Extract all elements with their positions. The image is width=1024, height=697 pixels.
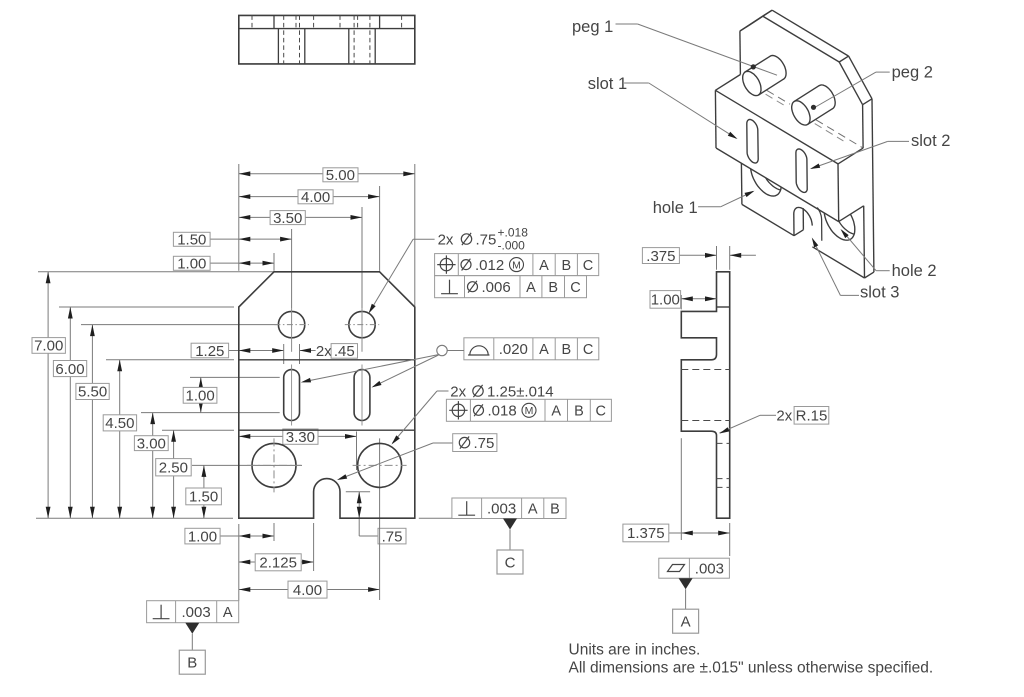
iso left chamfer back: [740, 16, 763, 31]
flatness symbol: [668, 565, 685, 572]
svg-text:hole 2: hole 2: [892, 262, 937, 280]
iso boss-strip tangent line dashed: [767, 90, 790, 104]
svg-text:+.018: +.018: [498, 226, 529, 240]
top view slot 1 hidden lines: [283, 15, 285, 64]
FCF perpendicularity .003 A B (datum C): [452, 498, 566, 519]
svg-text:B: B: [561, 258, 571, 274]
top view slot 2 hidden lines: [353, 15, 355, 64]
dia .75 notch callout: [433, 442, 453, 444]
svg-text:1.00: 1.00: [185, 388, 214, 405]
svg-text:3.50: 3.50: [273, 210, 302, 227]
iso peak connector: [763, 10, 772, 16]
dimension .75 notch depth: [346, 491, 370, 493]
svg-text:.020: .020: [499, 341, 528, 358]
svg-text:2x: 2x: [316, 343, 332, 360]
dimension 4.00 horizontal: [239, 196, 380, 198]
dimension 5.00 horizontal: [239, 173, 415, 175]
top view hole 1 hidden lines: [251, 15, 253, 28]
leader to slot 1: [304, 355, 440, 382]
svg-text:4.00: 4.00: [301, 189, 330, 206]
iso right chamfer front: [849, 56, 872, 99]
svg-text:A: A: [539, 342, 549, 358]
svg-text:M: M: [512, 259, 521, 271]
extension line 3.00 / slot bottom: [141, 412, 280, 414]
dimension 1.00 slot length: [189, 376, 191, 378]
iso left chamfer front: [749, 10, 772, 25]
iso notch arc back: [794, 207, 812, 225]
iso slot 1 inner wall: [781, 98, 792, 141]
part left edge extension line below (datum B attach): [238, 524, 240, 601]
extension line part right edge above: [414, 164, 416, 306]
iso peg 2 cylinder: [792, 101, 810, 125]
svg-text:hole 1: hole 1: [653, 199, 698, 217]
svg-text:All dimensions are ±.015" unle: All dimensions are ±.015" unless otherwi…: [569, 660, 934, 677]
top view divider line: [239, 28, 415, 30]
extension line hole1 below: [273, 523, 275, 541]
svg-text:B: B: [550, 502, 560, 518]
dimension 1.50 horizontal: [239, 238, 292, 240]
svg-text:5.50: 5.50: [78, 384, 107, 401]
svg-text:.75: .75: [476, 232, 497, 249]
top view outline: [239, 15, 415, 64]
svg-text:1.25: 1.25: [195, 343, 224, 360]
dimension 6.00 vertical: [69, 307, 71, 518]
dimension 1.375 side view: [680, 438, 682, 540]
iso notch (slot 3) left wall edges: [793, 214, 795, 236]
extension line 4.50 boss top: [106, 359, 234, 361]
extension line notch left below: [313, 523, 315, 571]
svg-text:2.125: 2.125: [259, 555, 297, 572]
svg-text:1.00: 1.00: [651, 292, 680, 309]
extension line 5.50 peg centerline left: [81, 324, 277, 326]
svg-text:.75: .75: [474, 435, 495, 452]
dimension 3.30: [239, 435, 357, 437]
top view hole 2 hidden lines: [357, 15, 359, 28]
iso bottom edge right part: [812, 247, 864, 278]
FCF perpendicularity dia .006 | A B C: [435, 276, 587, 298]
extension line 3.30: [356, 432, 358, 471]
svg-text:A: A: [539, 258, 549, 274]
note 2x dia .75 with tolerance: [413, 238, 435, 240]
extension line part left edge above: [238, 164, 240, 271]
side view chamfer edge line: [717, 306, 730, 308]
dimension 3.50 horizontal: [239, 216, 362, 218]
extension line 7.00 top: [38, 271, 274, 273]
dimension .375 side view: [716, 246, 718, 270]
svg-text:slot 1: slot 1: [588, 75, 627, 93]
top view peg 2 edges: [348, 29, 350, 64]
iso boss-top fillet tangent dashed: [766, 94, 785, 105]
svg-text:.003: .003: [487, 501, 516, 518]
extension line slot top (1.00 slot): [190, 376, 280, 378]
extension line peg2 center above: [361, 207, 363, 308]
datum A flag: [679, 578, 693, 589]
iso boss top-left connector: [715, 75, 740, 91]
iso left chamfer connector: [740, 25, 749, 31]
svg-text:A: A: [551, 404, 561, 420]
dimension 1.50 vertical: [203, 465, 205, 518]
dimension 2.50 vertical: [173, 430, 175, 518]
svg-text:A: A: [528, 502, 538, 518]
hole 1 circle: [252, 443, 296, 487]
hole 1 rim: [751, 156, 782, 197]
svg-text:slot 3: slot 3: [860, 284, 899, 302]
hole 1 centermark: [273, 438, 275, 492]
profile of surface symbol: [469, 346, 490, 355]
svg-text:slot 2: slot 2: [911, 132, 950, 150]
svg-text:4.00: 4.00: [293, 582, 322, 599]
slot 1 centerline: [291, 365, 293, 426]
extension line hole2 below: [379, 438, 381, 600]
svg-text:.45: .45: [334, 343, 355, 360]
svg-text:3.00: 3.00: [137, 435, 166, 452]
dimension 1.25 to slot1 left edge: [229, 350, 284, 352]
iso boss face left edge: [714, 90, 717, 148]
side view outline: [681, 272, 729, 518]
iso notch inner (front) arc: [818, 208, 822, 219]
top view chamfer edge left: [273, 15, 275, 28]
top view chamfer edge right: [379, 15, 381, 28]
iso bottom edge left part: [742, 204, 794, 235]
svg-text:C: C: [505, 555, 516, 572]
svg-text:2x: 2x: [776, 408, 792, 425]
dimension 4.50 vertical: [119, 360, 121, 518]
svg-text:M: M: [525, 405, 534, 417]
iso right edge front: [872, 99, 874, 272]
svg-text:4.50: 4.50: [105, 415, 134, 432]
svg-text:1.25±.014: 1.25±.014: [487, 384, 554, 401]
svg-text:B: B: [574, 404, 584, 420]
boss step line lower: [239, 429, 415, 431]
datum C flag: [503, 519, 517, 530]
bottom baseline extension line: [36, 517, 233, 519]
svg-text:C: C: [570, 280, 580, 296]
svg-text:1.00: 1.00: [188, 528, 217, 545]
svg-text:.006: .006: [482, 279, 511, 296]
iso boss bottom-right connector: [839, 206, 864, 222]
slot 2 outline: [354, 370, 370, 421]
iso boss top-right connector: [838, 148, 863, 164]
FCF perpendicularity .003 A (datum B) bottom left: [147, 601, 239, 623]
dimension 7.00 vertical: [47, 272, 49, 518]
iso right edge back upper: [862, 105, 865, 148]
side view peg block bottom edge: [681, 337, 716, 339]
side view slot hidden line top: [681, 369, 729, 371]
svg-text:peg 2: peg 2: [892, 64, 933, 82]
iso top edge front: [772, 10, 849, 56]
svg-text:R.15: R.15: [796, 408, 828, 425]
peg 1 centermark: [274, 324, 308, 326]
svg-text:1.50: 1.50: [177, 232, 206, 249]
dimension 3.00 vertical: [152, 413, 154, 519]
svg-text:7.00: 7.00: [34, 338, 63, 355]
svg-text:A: A: [526, 280, 536, 296]
hole 1 inner rim: [760, 150, 791, 190]
peg 1 circle: [278, 311, 304, 337]
svg-text:C: C: [596, 404, 606, 420]
note 2x dia 1.25 +-.014: [437, 390, 449, 392]
boss step line upper: [239, 359, 415, 361]
dimension 1.00 side view peg length: [680, 295, 682, 309]
side view slot hidden line bottom: [681, 420, 729, 422]
dimension 1.00 horizontal: [239, 262, 274, 264]
extension line hole1 center above: [273, 253, 275, 271]
svg-text:Units are in inches.: Units are in inches.: [569, 642, 701, 659]
svg-text:B: B: [548, 280, 558, 296]
iso slot 1 opening: [747, 120, 758, 164]
iso strip left edge lower: [740, 163, 743, 204]
dimension 4.00 bottom: [239, 589, 380, 591]
side view hole bottom hidden line: [717, 486, 730, 488]
svg-text:C: C: [583, 258, 593, 274]
svg-text:6.00: 6.00: [55, 361, 84, 378]
dimension 1.00 bottom: [220, 535, 274, 537]
svg-text:-.000: -.000: [498, 239, 526, 253]
extension line peg1 center above: [291, 229, 293, 308]
hole 2 rim: [824, 200, 855, 241]
extension line hole2 center above: [379, 186, 381, 271]
iso right top connector: [839, 56, 848, 62]
svg-text:2x: 2x: [450, 384, 466, 401]
hole 2 inner rim: [834, 194, 865, 235]
front view plate outline: [239, 272, 415, 518]
svg-text:.012: .012: [475, 257, 504, 274]
slot 2 centerline: [361, 365, 363, 426]
leader to slot 2: [374, 355, 439, 386]
side view hole top hidden line: [717, 442, 730, 444]
extension line 6.00 chamfer base: [59, 306, 234, 308]
dimension 2x .45 slot width: [300, 350, 316, 352]
iso right chamfer back: [839, 62, 862, 105]
iso boss face right edge: [837, 164, 840, 222]
svg-text:peg 1: peg 1: [572, 18, 613, 36]
side view notch top hidden line: [717, 478, 730, 480]
iso slot 2 inner wall: [830, 127, 841, 171]
svg-text:2x: 2x: [438, 232, 454, 249]
svg-text:1.00: 1.00: [177, 256, 206, 273]
top view peg 1 edges: [277, 29, 279, 64]
iso top edge back: [763, 16, 840, 62]
svg-text:B: B: [187, 655, 197, 672]
svg-text:3.30: 3.30: [286, 429, 315, 446]
svg-text:5.00: 5.00: [326, 167, 355, 184]
svg-text:B: B: [561, 342, 571, 358]
peg 2 circle: [349, 311, 375, 337]
svg-text:2.50: 2.50: [159, 460, 188, 477]
extension line 1.50 hole centerline: [192, 464, 302, 466]
svg-text:.75: .75: [382, 528, 403, 545]
hole 2 circle: [358, 443, 402, 487]
svg-text:.003: .003: [181, 604, 210, 621]
datum B flag: [185, 623, 199, 634]
iso right chamfer corner connector: [863, 99, 872, 105]
slot 1 outline: [284, 370, 300, 421]
iso strip left edge upper: [739, 31, 742, 74]
iso boss face bottom edge: [716, 148, 839, 222]
iso boss face top edge: [715, 90, 838, 164]
profile FCF .020 A B C with balloon: [464, 338, 599, 360]
balloon circle: [437, 345, 447, 355]
hole 2 centermark: [353, 464, 407, 466]
FCF position dia .018 M | A B C: [446, 399, 611, 421]
svg-text:1.50: 1.50: [189, 489, 218, 506]
svg-text:.018: .018: [488, 403, 517, 420]
iso right edge back lower: [863, 206, 866, 278]
svg-text:A: A: [681, 614, 691, 631]
svg-text:.375: .375: [646, 248, 675, 265]
svg-text:1.375: 1.375: [627, 525, 665, 542]
extension line 2.50 boss bottom: [162, 429, 234, 431]
iso bottom right connector: [865, 272, 874, 278]
top view notch hidden lines: [313, 15, 315, 28]
svg-text:A: A: [223, 605, 233, 621]
flatness FCF side view: [659, 558, 730, 578]
FCF position dia .012 M | A B C: [435, 254, 599, 276]
2x R.15 callout: [760, 414, 776, 416]
iso slot 2 opening: [796, 149, 807, 192]
svg-text:.003: .003: [695, 561, 724, 578]
dimension 2.125 bottom: [239, 561, 314, 563]
svg-text:C: C: [583, 342, 593, 358]
iso peg 1 cylinder: [743, 71, 761, 95]
peg 2 centermark: [345, 324, 379, 326]
dimension 5.50 vertical: [91, 325, 93, 519]
